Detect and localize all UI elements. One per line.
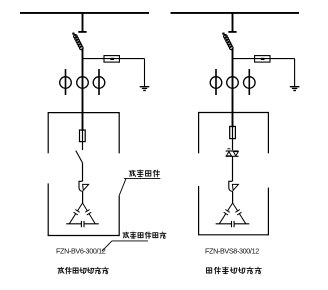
cabinet outline bottom (right) bbox=[198, 234, 268, 236]
cabinet outline left upper (left) bbox=[47, 112, 49, 153]
cabinet outline right lower (right) bbox=[267, 188, 269, 236]
wire: main feeder (right) bbox=[232, 48, 234, 127]
wire: arrester branch (left) bbox=[83, 58, 145, 60]
cabinet outline left lower (right) bbox=[198, 186, 200, 235]
callout text 2 (left) bbox=[123, 232, 129, 238]
ground (right) bbox=[290, 86, 300, 87]
ground (left) bbox=[140, 86, 150, 87]
wire: arrester branch (right) bbox=[233, 58, 295, 60]
cabinet outline bottom (left) bbox=[48, 235, 120, 237]
leader line 1 (left) bbox=[119, 179, 126, 196]
wire: contactor to plug (left) bbox=[82, 163, 84, 182]
leader underline: cheng-tao-zu-jian (left) bbox=[124, 178, 160, 180]
cabinet outline right upper (right) bbox=[267, 112, 269, 153]
surge arrester F2 (right) bbox=[255, 56, 270, 63]
wire: through fuse (left) bbox=[82, 130, 84, 150]
svg-text:FZN-BVS8-300/12: FZN-BVS8-300/12 bbox=[205, 247, 259, 256]
cabinet outline top (right) bbox=[199, 112, 269, 114]
cabinet outline left upper (right) bbox=[198, 112, 200, 153]
busbar (left panel) bbox=[20, 12, 149, 14]
cabinet outline top (left) bbox=[48, 112, 119, 114]
leader underline 2 (left) bbox=[112, 240, 148, 242]
wire: through fuse (right) bbox=[232, 127, 234, 151]
leader line 2 (left) bbox=[102, 241, 112, 251]
busbar (right panel) bbox=[171, 12, 300, 14]
caption (left): contactor switching mode bbox=[58, 267, 64, 273]
phase line C (right CT row) bbox=[248, 69, 250, 95]
fixed contact tick (left fuse-switch) bbox=[78, 31, 86, 33]
surge arrester F1 (left) bbox=[104, 56, 119, 63]
wire: bus drop (right) bbox=[232, 14, 234, 32]
contactor KM blade (left) bbox=[76, 151, 83, 163]
phase line A (left CT row) bbox=[65, 69, 67, 95]
CT TA2a (right) bbox=[210, 77, 222, 89]
wire: thyristor to plug (right) bbox=[232, 156, 234, 181]
wire: main feeder (left) bbox=[82, 48, 84, 131]
capacitor bank C1 delta (left) bbox=[69, 203, 82, 224]
wire: plug to capacitor bank (right) bbox=[232, 191, 234, 203]
callout text 1 (left) bbox=[129, 170, 135, 176]
phase line C (left CT row) bbox=[98, 69, 100, 95]
fuse FU2 (left) bbox=[80, 130, 86, 142]
wire: arrester to ground (right) bbox=[294, 59, 296, 87]
fuse-switch coil FU1 (left) bbox=[72, 33, 74, 35]
CT TA2c (right) bbox=[244, 77, 256, 89]
wire: bus drop (left) bbox=[82, 14, 84, 32]
CT TA1b (left) bbox=[77, 77, 89, 89]
plug-in connector (right) bbox=[229, 181, 233, 191]
CT TA2b (right) bbox=[227, 77, 239, 89]
phase line A (right CT row) bbox=[215, 69, 217, 95]
cabinet outline left lower (left) bbox=[47, 183, 49, 235]
cabinet outline right upper (left) bbox=[118, 112, 120, 153]
wire: arrester to ground (left) bbox=[144, 59, 146, 87]
capacitor bank C2 delta (right) bbox=[219, 203, 232, 224]
wire: plug to capacitor bank (left) bbox=[82, 191, 84, 203]
caption (right): thyristor switching mode bbox=[207, 268, 212, 273]
svg-text:FZN-BV6-300/12: FZN-BV6-300/12 bbox=[56, 247, 106, 256]
plug-in connector (left) bbox=[79, 181, 83, 191]
fixed contact tick (right fuse-switch) bbox=[228, 31, 236, 33]
thyristor valve VT (right) bbox=[227, 148, 230, 150]
CT TA1c (left) bbox=[93, 77, 105, 89]
fuse FU4 (right) bbox=[230, 126, 236, 138]
fuse-switch coil FU3 (right) bbox=[222, 33, 224, 35]
CT TA1a (left) bbox=[60, 77, 72, 89]
cabinet outline right lower (left) bbox=[118, 196, 120, 236]
